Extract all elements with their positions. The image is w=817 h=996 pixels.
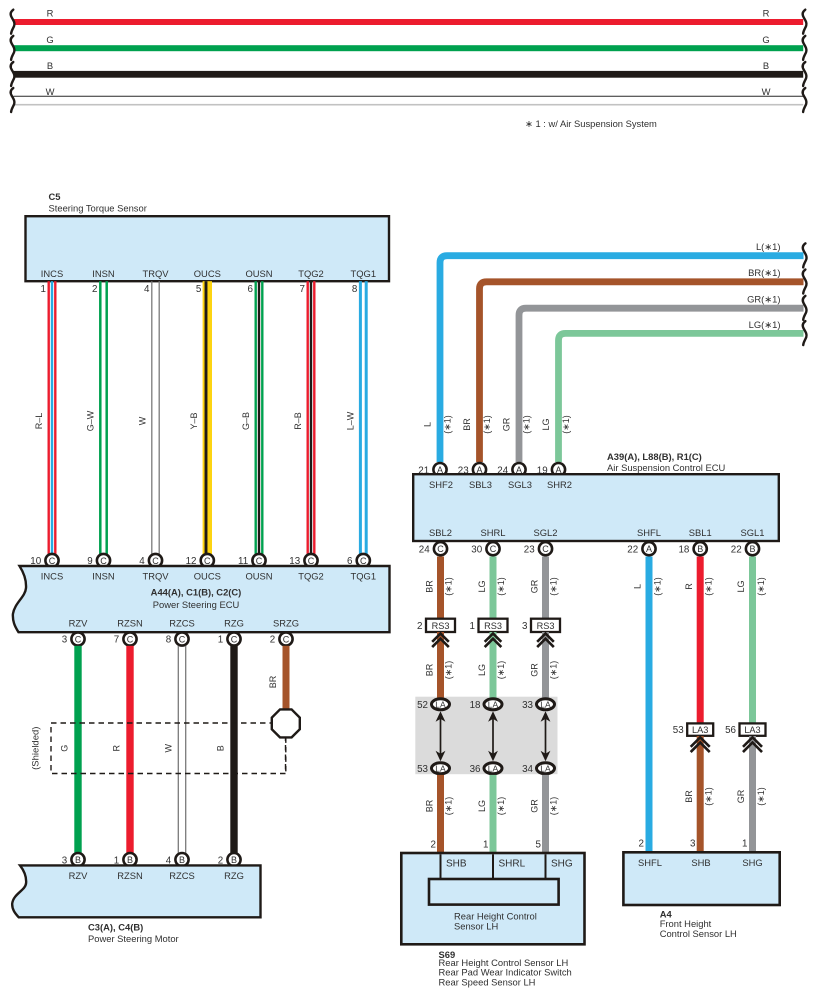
svg-text:GR: GR (501, 417, 511, 431)
break symbol right of wire LG(*1) (803, 321, 807, 345)
internal divider at SHG (545, 854, 547, 879)
dashed wire from octagon to shield box (285, 737, 287, 773)
wire B (RZG) (230, 646, 237, 854)
internal divider at SHRL (492, 854, 494, 879)
wire bus B (horizontal) (14, 60, 804, 78)
svg-text:18: 18 (678, 544, 689, 555)
svg-text:C: C (542, 544, 549, 554)
wire GR(*1) LA to sensor (col GR) (530, 775, 559, 853)
component S69 Rear Height Control Sensor LH (box) (401, 853, 584, 944)
svg-text:TQG1: TQG1 (351, 268, 377, 279)
svg-text:56: 56 (725, 725, 736, 736)
connector pin 18 (B) at ASC ECU bottom (678, 542, 706, 555)
svg-text:L: L (633, 584, 643, 589)
svg-text:1: 1 (218, 635, 223, 646)
svg-text:SHG: SHG (742, 857, 762, 868)
svg-text:4: 4 (144, 284, 150, 295)
component A4 Front Height Control Sensor LH (box) (623, 852, 779, 905)
svg-text:L: L (422, 422, 432, 427)
wire BR(*1) ECU to RS3 (col BR) (425, 557, 454, 619)
svg-text:OUSN: OUSN (245, 268, 272, 279)
svg-text:B: B (47, 60, 53, 71)
svg-text:8: 8 (352, 284, 358, 295)
shield octagon symbol (272, 709, 300, 737)
svg-text:B: B (179, 855, 185, 865)
connector pin 4 (C) at Power Steering ECU top (139, 554, 162, 567)
svg-text:B: B (231, 855, 237, 865)
svg-text:BR: BR (268, 675, 278, 688)
svg-text:B: B (127, 855, 133, 865)
svg-text:7: 7 (114, 635, 119, 646)
svg-text:BR: BR (425, 663, 435, 676)
wire Y-B (OUCS) (189, 281, 212, 554)
connector pin 7 (C) at PS ECU bottom (114, 632, 137, 645)
twisted-pair arrow (col BR) (436, 711, 446, 761)
svg-text:BR(∗1): BR(∗1) (748, 267, 780, 278)
ECU A44 Power Steering ECU (box with torn left edge) (13, 566, 390, 632)
wire W (RZCS) (178, 646, 179, 854)
connector pin 1 (B) at Power Steering Motor (114, 853, 137, 866)
svg-text:B: B (763, 60, 769, 71)
svg-text:(Shielded): (Shielded) (31, 727, 42, 770)
svg-text:B: B (749, 544, 755, 554)
svg-text:TRQV: TRQV (142, 571, 169, 582)
svg-text:(∗1): (∗1) (549, 661, 559, 680)
svg-text:33: 33 (522, 700, 533, 711)
break symbol right of bus B (803, 62, 807, 86)
svg-text:2: 2 (270, 635, 275, 646)
wire LG(*1) bent from right (541, 319, 804, 462)
svg-text:INSN: INSN (92, 571, 114, 582)
svg-text:R–B: R–B (293, 412, 303, 430)
svg-text:(∗1): (∗1) (549, 797, 559, 816)
svg-text:LG: LG (477, 800, 487, 812)
connector pin 12 (C) at Power Steering ECU top (186, 554, 214, 567)
svg-text:LA: LA (435, 764, 446, 774)
connector pin 8 (C) at PS ECU bottom (166, 632, 189, 645)
component C3/C4 Power Steering Motor (box with torn left edge) (12, 865, 260, 917)
connector pin 9 (C) at Power Steering ECU top (87, 554, 110, 567)
break symbol left of bus B (11, 62, 15, 86)
svg-text:Power Steering Motor: Power Steering Motor (88, 933, 179, 944)
svg-text:SBL3: SBL3 (469, 479, 492, 490)
svg-text:LA3: LA3 (692, 725, 708, 735)
splice LA3 pin 53 (673, 723, 713, 736)
svg-text:SHF2: SHF2 (429, 479, 453, 490)
wire GR(*1) bent from right (501, 294, 803, 462)
wire BR(*1) RS3 to LA (col BR) (425, 632, 454, 698)
svg-text:G: G (762, 34, 769, 45)
wire R(*1) ECU to LA3 (SBL1) (684, 557, 714, 724)
connector pin 24 (A) at Air Suspension ECU top (497, 463, 525, 476)
wire bus R (horizontal) (14, 8, 804, 25)
svg-text:RZV: RZV (69, 618, 88, 629)
svg-text:TQG1: TQG1 (351, 571, 377, 582)
connector 52 LA (top) (417, 699, 449, 711)
connector pin 22 (A) at ASC ECU bottom (627, 542, 655, 555)
svg-text:Power Steering ECU: Power Steering ECU (153, 599, 240, 610)
svg-text:3: 3 (522, 621, 528, 632)
svg-text:RZCS: RZCS (169, 618, 195, 629)
wire GR(*1) LA3 to A4 (SHG) (736, 736, 766, 852)
svg-text:SHRL: SHRL (480, 527, 505, 538)
svg-text:(∗1): (∗1) (496, 577, 506, 596)
svg-text:2: 2 (92, 284, 97, 295)
svg-text:INCS: INCS (41, 571, 63, 582)
wire G (RZV) (74, 646, 81, 854)
svg-text:TQG2: TQG2 (298, 268, 324, 279)
svg-text:OUSN: OUSN (245, 571, 272, 582)
shield chevrons below LA3 (SBL1) (692, 737, 709, 751)
svg-text:TQG2: TQG2 (298, 571, 324, 582)
connector pin 2 (C) at PS ECU bottom (270, 632, 293, 645)
svg-text:Air Suspension Control ECU: Air Suspension Control ECU (607, 462, 726, 473)
svg-text:C: C (152, 556, 159, 566)
svg-text:A44(A), C1(B), C2(C): A44(A), C1(B), C2(C) (151, 587, 242, 598)
svg-text:C: C (437, 544, 444, 554)
svg-text:LA: LA (488, 700, 499, 710)
svg-text:SHFL: SHFL (637, 527, 661, 538)
svg-text:23: 23 (524, 544, 535, 555)
connector pin 4 (B) at Power Steering Motor (166, 853, 189, 866)
svg-text:Control Sensor LH: Control Sensor LH (660, 928, 737, 939)
svg-text:C: C (308, 556, 315, 566)
svg-text:LA: LA (540, 700, 551, 710)
svg-text:C: C (360, 556, 367, 566)
connector pin 23 (A) at Air Suspension ECU top (458, 463, 486, 476)
svg-text:RZSN: RZSN (117, 618, 143, 629)
wire L-W (TQG1) (345, 281, 367, 554)
svg-text:1: 1 (470, 621, 475, 632)
svg-text:(∗1): (∗1) (444, 661, 454, 680)
svg-text:Sensor LH: Sensor LH (454, 920, 498, 931)
break symbol left of bus R (11, 10, 15, 34)
wire G-W (INSN) (86, 281, 108, 554)
svg-text:3: 3 (62, 635, 68, 646)
svg-text:Rear Speed Sensor LH: Rear Speed Sensor LH (439, 976, 536, 987)
svg-text:C: C (75, 634, 82, 644)
svg-text:C: C (49, 556, 56, 566)
svg-text:24: 24 (419, 544, 430, 555)
svg-text:BR: BR (684, 790, 694, 803)
svg-text:(∗1): (∗1) (561, 415, 571, 434)
svg-text:LG: LG (541, 418, 551, 430)
connector 18 LA (top) (470, 699, 502, 711)
label A4 caption (660, 909, 737, 939)
svg-text:∗ 1 : w/ Air Suspension System: ∗ 1 : w/ Air Suspension System (525, 118, 657, 129)
connector pin 23 (C) at ASC ECU bottom (524, 542, 552, 555)
svg-text:OUCS: OUCS (194, 268, 221, 279)
connector 53 LA (bottom) (417, 763, 449, 775)
svg-text:6: 6 (248, 284, 254, 295)
svg-text:2: 2 (639, 839, 644, 850)
wire L(*1) bent from right (422, 241, 803, 462)
svg-text:(∗1): (∗1) (704, 787, 714, 806)
gray junction block (415, 697, 557, 775)
twisted-pair arrow (col GR) (541, 711, 551, 761)
svg-text:(∗1): (∗1) (496, 661, 506, 680)
wire R (RZSN) (126, 646, 133, 854)
svg-text:Y–B: Y–B (189, 412, 199, 429)
shield chevrons below LA3 (SGL1) (744, 737, 761, 751)
svg-text:GR: GR (530, 799, 540, 813)
svg-text:B: B (75, 855, 81, 865)
wire BR(*1) bent from right (462, 267, 804, 462)
connector pin 1 (C) at PS ECU bottom (218, 632, 241, 645)
svg-text:30: 30 (471, 544, 482, 555)
break symbol right of bus R (803, 10, 807, 34)
svg-text:52: 52 (417, 700, 428, 711)
svg-text:SHB: SHB (691, 857, 710, 868)
svg-text:RS3: RS3 (484, 621, 502, 631)
connector pin 19 (A) at Air Suspension ECU top (537, 463, 565, 476)
inner block of S69 (429, 879, 559, 905)
svg-text:34: 34 (522, 764, 533, 775)
wire GR(*1) ECU to RS3 (col GR) (530, 557, 559, 619)
svg-text:W: W (46, 86, 55, 97)
svg-text:C: C (490, 544, 497, 554)
break symbol right of wire L(*1) (803, 243, 807, 267)
svg-text:SRZG: SRZG (273, 618, 299, 629)
svg-text:SGL3: SGL3 (508, 479, 532, 490)
connector 36 LA (bottom) (470, 763, 502, 775)
svg-text:LG: LG (477, 580, 487, 592)
svg-text:(∗1): (∗1) (549, 577, 559, 596)
svg-text:C: C (127, 634, 134, 644)
wire LG(*1) ECU to LA3 (SGL1) (736, 557, 766, 724)
svg-text:Steering Torque Sensor: Steering Torque Sensor (49, 203, 147, 214)
svg-text:SBL2: SBL2 (429, 527, 452, 538)
connector pin 22 (B) at ASC ECU bottom (731, 542, 759, 555)
svg-text:B: B (216, 745, 226, 751)
svg-text:RZCS: RZCS (169, 870, 195, 881)
svg-text:C: C (256, 556, 263, 566)
svg-text:RS3: RS3 (537, 621, 555, 631)
svg-text:SHRL: SHRL (499, 859, 526, 870)
svg-text:5: 5 (536, 840, 542, 851)
connector 33 LA (top) (522, 699, 554, 711)
svg-text:(∗1): (∗1) (522, 415, 532, 434)
svg-text:R: R (684, 583, 694, 590)
svg-text:TRQV: TRQV (142, 268, 169, 279)
svg-text:L–W: L–W (345, 411, 355, 430)
svg-text:1: 1 (41, 284, 46, 295)
svg-text:(∗1): (∗1) (756, 787, 766, 806)
svg-text:W: W (138, 416, 148, 425)
shield dashed box (51, 723, 286, 774)
svg-text:LG(∗1): LG(∗1) (749, 319, 781, 330)
svg-text:1: 1 (483, 840, 488, 851)
wire LG(*1) RS3 to LA (col LG) (477, 632, 506, 698)
svg-text:SHFL: SHFL (638, 857, 662, 868)
splice RS3 pin 3 (522, 619, 560, 632)
splice LA3 pin 56 (725, 723, 765, 736)
svg-text:L(∗1): L(∗1) (756, 241, 781, 252)
break symbol right of wire BR(*1) (803, 270, 807, 294)
svg-text:LG: LG (477, 664, 487, 676)
svg-text:5: 5 (196, 284, 202, 295)
svg-text:C: C (204, 556, 211, 566)
svg-text:B: B (697, 544, 703, 554)
svg-text:(∗1): (∗1) (496, 797, 506, 816)
svg-text:R: R (112, 744, 122, 751)
svg-text:(∗1): (∗1) (444, 577, 454, 596)
svg-text:LA3: LA3 (744, 725, 760, 735)
svg-text:BR: BR (462, 418, 472, 431)
wire BR(*1) LA to sensor (col BR) (425, 775, 454, 853)
svg-text:RZSN: RZSN (117, 870, 143, 881)
connector pin 3 (B) at Power Steering Motor (62, 853, 85, 866)
svg-text:SHR2: SHR2 (547, 479, 572, 490)
svg-text:SHB: SHB (446, 859, 467, 870)
break symbol right of bus W (803, 88, 807, 112)
svg-text:18: 18 (470, 700, 481, 711)
wire R-L (INCS) (34, 281, 57, 554)
splice RS3 pin 1 (470, 619, 508, 632)
svg-text:A39(A), L88(B), R1(C): A39(A), L88(B), R1(C) (607, 451, 702, 462)
svg-text:C5: C5 (49, 191, 61, 202)
svg-text:2: 2 (431, 840, 436, 851)
svg-text:7: 7 (300, 284, 305, 295)
connector pin 11 (C) at Power Steering ECU top (238, 554, 266, 567)
svg-text:36: 36 (470, 764, 481, 775)
svg-text:(∗1): (∗1) (652, 577, 662, 596)
svg-text:INSN: INSN (92, 268, 114, 279)
svg-text:LA: LA (488, 764, 499, 774)
wire GR(*1) RS3 to LA (col GR) (530, 632, 559, 698)
svg-text:RZV: RZV (69, 870, 88, 881)
svg-text:W: W (164, 743, 174, 752)
break symbol right of bus G (803, 36, 807, 60)
wire G-B (OUSN) (241, 281, 264, 554)
svg-text:LA: LA (540, 764, 551, 774)
wire BR (SRZG) to shield (268, 646, 290, 710)
wire L(*1) ECU to A4 (SHFL) (633, 557, 663, 853)
shield chevrons below RS3 (col LG) (486, 634, 501, 647)
svg-text:SGL2: SGL2 (534, 527, 558, 538)
svg-text:G–B: G–B (241, 412, 251, 430)
svg-text:INCS: INCS (41, 268, 63, 279)
label Rear Height Control / Sensor LH inside S69 (454, 910, 537, 931)
svg-text:GR: GR (530, 579, 540, 593)
svg-text:BR: BR (425, 799, 435, 812)
svg-text:R: R (763, 8, 770, 19)
connector pin 6 (C) at Power Steering ECU top (347, 554, 370, 567)
svg-text:RZG: RZG (224, 870, 244, 881)
wire bus G (horizontal) (14, 34, 804, 51)
label S69 caption (439, 949, 572, 987)
twisted-pair arrow (col LG) (488, 711, 498, 761)
svg-text:RS3: RS3 (432, 621, 450, 631)
connector pin 24 (C) at ASC ECU bottom (419, 542, 447, 555)
connector pin 3 (C) at PS ECU bottom (62, 632, 85, 645)
shield chevrons below RS3 (col GR) (538, 634, 553, 647)
svg-text:W: W (762, 86, 771, 97)
wire LG(*1) LA to sensor (col LG) (477, 775, 506, 853)
wire W (TRQV) (138, 281, 160, 554)
svg-text:R–L: R–L (34, 413, 44, 430)
svg-text:G: G (46, 34, 53, 45)
wire R-B (TQG2) (293, 281, 316, 554)
svg-text:RZG: RZG (224, 618, 244, 629)
svg-text:22: 22 (627, 544, 638, 555)
svg-text:C: C (100, 556, 107, 566)
break symbol right of wire GR(*1) (803, 296, 807, 320)
svg-text:GR: GR (530, 663, 540, 677)
svg-text:3: 3 (690, 839, 696, 850)
connector pin 13 (C) at Power Steering ECU top (289, 554, 317, 567)
svg-text:53: 53 (417, 764, 428, 775)
connector 34 LA (bottom) (522, 763, 554, 775)
svg-text:53: 53 (673, 725, 684, 736)
svg-text:(∗1): (∗1) (756, 577, 766, 596)
wire BR(*1) LA3 to A4 (SHB) (684, 736, 714, 852)
connector pin 10 (C) at Power Steering ECU top (30, 554, 58, 567)
svg-text:G–W: G–W (86, 410, 96, 431)
component C5 Steering Torque Sensor (box) (26, 191, 390, 281)
wire LG(*1) ECU to RS3 (col LG) (477, 557, 506, 619)
connector pin 21 (A) at Air Suspension ECU top (418, 463, 446, 476)
svg-text:C: C (231, 634, 238, 644)
svg-text:BR: BR (425, 580, 435, 593)
connector pin 2 (B) at Power Steering Motor (218, 853, 241, 866)
svg-text:SBL1: SBL1 (689, 527, 712, 538)
svg-text:1: 1 (742, 839, 747, 850)
svg-text:C: C (283, 634, 290, 644)
svg-text:(∗1): (∗1) (704, 577, 714, 596)
svg-text:G: G (60, 745, 70, 752)
ECU A39 Air Suspension Control ECU (box) (413, 474, 779, 541)
svg-text:GR(∗1): GR(∗1) (747, 294, 780, 305)
splice RS3 pin 2 (417, 619, 455, 632)
wire bus W (horizontal, white wire shown as outline) (14, 86, 804, 106)
connector pin 30 (C) at ASC ECU bottom (471, 542, 499, 555)
svg-text:OUCS: OUCS (194, 571, 221, 582)
svg-text:C3(A), C4(B): C3(A), C4(B) (88, 922, 143, 933)
svg-text:2: 2 (417, 621, 422, 632)
internal divider at SHB (440, 854, 442, 879)
svg-text:C: C (179, 634, 186, 644)
svg-text:LA: LA (435, 700, 446, 710)
svg-text:LG: LG (736, 580, 746, 592)
svg-text:(∗1): (∗1) (443, 415, 453, 434)
svg-text:A: A (646, 544, 652, 554)
svg-text:(∗1): (∗1) (482, 415, 492, 434)
shield chevrons below RS3 (col BR) (433, 634, 448, 647)
svg-text:SGL1: SGL1 (741, 527, 765, 538)
svg-text:R: R (47, 8, 54, 19)
break symbol left of bus G (11, 36, 15, 60)
svg-text:GR: GR (736, 789, 746, 803)
svg-text:SHG: SHG (551, 859, 573, 870)
break symbol left of bus W (11, 88, 15, 112)
svg-text:8: 8 (166, 635, 172, 646)
svg-text:(∗1): (∗1) (444, 797, 454, 816)
svg-text:22: 22 (731, 544, 742, 555)
